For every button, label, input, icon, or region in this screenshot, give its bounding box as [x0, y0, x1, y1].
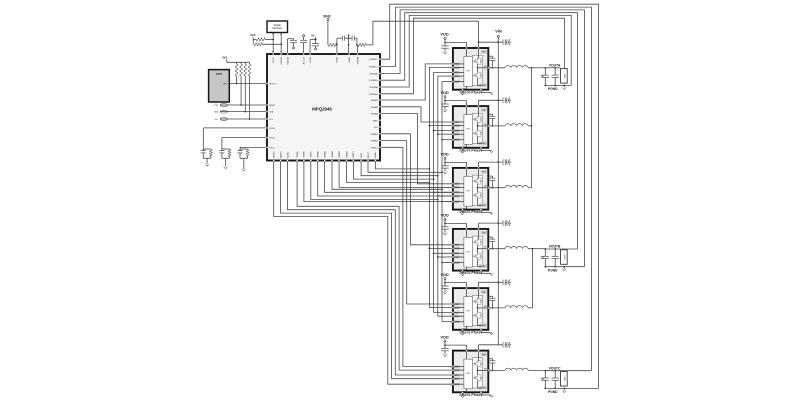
wire U1 bottom pin 5 to module bus: [304, 162, 453, 202]
svg-text:Intelli-Phase: Intelli-Phase: [459, 393, 482, 397]
svg-text:GND: GND: [563, 255, 565, 260]
Intelli-Phase power stage module 6: [452, 350, 489, 394]
NTC thermistor RC network at U1 pin y=127.9: [201, 128, 266, 166]
module 5 caption: [459, 330, 482, 334]
svg-text:TSENC: TSENC: [311, 151, 313, 158]
svg-text:PWMA3: PWMA3: [371, 113, 378, 116]
svg-text:3V3: 3V3: [250, 33, 255, 37]
svg-text:VOSNSB-: VOSNSB-: [369, 73, 378, 75]
VDD supply and decoupling for module 1: [440, 32, 466, 54]
svg-text:CTRL: CTRL: [213, 105, 218, 107]
svg-text:V5VIN: V5VIN: [310, 57, 312, 63]
pull-up resistors on digital interface lines (3V3): [250, 33, 282, 46]
module 2 ground connections: [460, 149, 493, 153]
svg-text:VOSNSA-: VOSNSA-: [369, 86, 378, 89]
svg-text:PWMA1: PWMA1: [371, 99, 378, 102]
svg-text:ISENA1: ISENA1: [317, 151, 320, 158]
U1 right pins: [369, 58, 381, 149]
PWM wire U1 to phase module 2: [381, 107, 453, 122]
svg-text:TSENA: TSENA: [296, 151, 299, 158]
svg-text:NTCB: NTCB: [269, 138, 275, 140]
svg-text:VDD18A: VDD18A: [286, 56, 289, 64]
VIN decoupling capacitors for module 4: [479, 220, 512, 228]
svg-text:VOUTA: VOUTA: [549, 63, 561, 67]
bus column 2 to module pins: [433, 72, 453, 312]
svg-text:ADDR0: ADDR0: [273, 151, 276, 157]
output inductor phase 2: [489, 124, 532, 126]
module 6 ground connections: [460, 393, 493, 397]
svg-text:VIN: VIN: [495, 29, 502, 34]
PWM wire U1 to phase module 3: [381, 114, 453, 184]
U1 top pins: [272, 53, 359, 65]
VDD supply and decoupling for module 2: [440, 90, 466, 112]
svg-text:PWMB2: PWMB2: [371, 141, 378, 143]
wire U1 bottom pin 12 to module bus: [353, 162, 434, 180]
5V bias supply and capacitor: [310, 34, 319, 53]
svg-text:ATEST: ATEST: [367, 151, 370, 158]
svg-text:VCC12: VCC12: [273, 57, 275, 63]
svg-text:VDD33A: VDD33A: [280, 56, 283, 64]
wire U1 bottom pin 7 to module bus: [318, 162, 453, 197]
svg-text:VOUTC: VOUTC: [549, 366, 561, 370]
output inductor phase 3: [489, 185, 532, 187]
VIN decoupling capacitors for module 6: [479, 342, 512, 350]
svg-text:VDD: VDD: [440, 90, 448, 95]
svg-text:ISENA3: ISENA3: [331, 151, 334, 158]
svg-text:Intelli-Phase: Intelli-Phase: [459, 90, 482, 94]
Intelli-Phase power stage module 5: [452, 287, 489, 331]
svg-text:PWMA2: PWMA2: [371, 106, 378, 109]
svg-text:PWMB1: PWMB1: [371, 134, 378, 136]
wire U1 bottom pin 9 to module bus: [332, 162, 443, 191]
Intelli-Phase power stage module 2: [452, 105, 489, 149]
module 4 bootstrap capacitor: [489, 237, 496, 249]
output stage VOUTA: [541, 63, 572, 91]
module 2 bootstrap capacitor: [489, 114, 496, 126]
svg-text:VOSNSC-: VOSNSC-: [369, 59, 378, 61]
svg-text:NTCA: NTCA: [269, 127, 275, 130]
bus column 1 to module pins: [429, 68, 453, 308]
Intelli-Phase power stage module 1: [452, 47, 489, 91]
svg-text:AVCC33: AVCC33: [302, 57, 305, 64]
connector SDA to U1: [214, 110, 266, 114]
wire U1 bottom pin 15 to module bus: [375, 162, 430, 170]
svg-text:VIN2A: VIN2A: [348, 56, 351, 62]
svg-text:NTCC: NTCC: [269, 147, 275, 149]
CPU block: [209, 70, 230, 102]
module 5 ground connections: [460, 331, 493, 335]
NTC thermistor RC network at U1 pin y=137.6: [219, 138, 266, 169]
svg-text:Intelli-Phase: Intelli-Phase: [459, 148, 482, 152]
svg-text:VREF: VREF: [361, 152, 363, 158]
VDD supply and decoupling for module 6: [440, 334, 466, 356]
wire U1 bottom pin 3 to module bus: [288, 162, 453, 376]
svg-text:SCL: SCL: [269, 119, 273, 121]
module 5 bootstrap capacitor: [489, 296, 496, 308]
svg-text:GND: GND: [563, 376, 565, 381]
VIN supply rail: [495, 29, 502, 345]
svg-text:CPU: CPU: [216, 72, 222, 76]
U1 left pins: [266, 83, 277, 150]
VIN decoupling capacitors for module 1: [478, 39, 512, 47]
module 3 caption: [459, 210, 482, 214]
phase bus rail B: [532, 248, 546, 308]
svg-text:5V: 5V: [311, 34, 315, 38]
output inductor phase 1: [489, 66, 532, 68]
svg-text:VDD: VDD: [440, 272, 448, 277]
svg-text:VOSNSB+: VOSNSB+: [369, 80, 379, 82]
module 1 bootstrap capacitor: [489, 56, 496, 68]
module 4 ground connections: [460, 272, 493, 276]
Intelli-Phase power stage module 3: [452, 167, 489, 211]
connector CTRL to U1: [213, 104, 266, 108]
VDD supply and decoupling for module 5: [440, 272, 466, 294]
wire U1 bottom pin 13 to module bus: [361, 162, 439, 177]
VDD supply and decoupling for module 4: [440, 213, 466, 235]
svg-text:VDD: VDD: [440, 152, 448, 157]
VIN decoupling capacitors for module 5: [479, 280, 512, 288]
svg-text:VIN1A: VIN1A: [335, 56, 338, 62]
decoupling capacitor on VDD18 pin: [288, 39, 297, 53]
module 1 caption: [459, 90, 482, 94]
output inductor phase 6: [489, 368, 546, 370]
svg-text:PGND: PGND: [548, 87, 558, 91]
output stage VOUTC: [541, 366, 599, 394]
svg-text:ADDR1: ADDR1: [279, 151, 282, 157]
module 2 caption: [459, 148, 482, 152]
module 4 caption: [459, 271, 482, 275]
sense wire VOSNSC- bus: [381, 4, 599, 388]
output inductor phase 4: [489, 246, 533, 248]
PWM wire U1 to phase module 6: [381, 147, 453, 366]
svg-text:VDD: VDD: [440, 32, 448, 37]
module 3 ground connections: [460, 211, 493, 215]
svg-text:PGND: PGND: [548, 390, 558, 394]
svg-text:DGND: DGND: [375, 152, 377, 158]
Intelli-Phase power stage module 4: [452, 228, 489, 272]
bus column 3 to module pins: [437, 76, 453, 316]
module 6 caption: [459, 393, 482, 397]
controller IC U1 MPQ2946: [267, 54, 380, 161]
bus column 4 to module pins: [441, 82, 453, 322]
svg-text:GPIO1:7: GPIO1:7: [269, 84, 276, 86]
svg-text:VDD: VDD: [440, 213, 448, 218]
svg-text:Intelli-Phase: Intelli-Phase: [459, 330, 482, 334]
NTC thermistor RC network at U1 pin y=147.4: [237, 147, 266, 171]
svg-text:PGND: PGND: [548, 268, 558, 272]
svg-text:ISENA2: ISENA2: [323, 151, 326, 158]
wire U1 bottom pin 4 to module bus: [297, 162, 453, 371]
svg-text:VSNSIN: VSNSIN: [357, 57, 359, 65]
svg-text:GND: GND: [563, 73, 565, 78]
svg-text:ISENC1: ISENC1: [353, 151, 355, 158]
svg-text:Intelli-Phase: Intelli-Phase: [459, 210, 482, 214]
sense wire VOSNSB- bus: [381, 10, 584, 267]
U1 bottom pins: [273, 151, 378, 162]
wire U1 bottom pin 14 to module bus: [368, 162, 443, 174]
PWM wire U1 to phase module 5: [381, 141, 453, 304]
svg-text:VOSNSA+: VOSNSA+: [369, 93, 379, 96]
sense wire VOSNSB+ bus: [381, 13, 578, 249]
sense wire VOSNSC+ bus: [381, 7, 591, 371]
wire U1 bottom pin 6 to module bus: [311, 162, 439, 201]
svg-text:VIN2: VIN2: [323, 15, 331, 19]
VIN decoupling capacitors for module 3: [479, 159, 512, 167]
module 3 bootstrap capacitor: [489, 176, 496, 188]
svg-text:BSEL: BSEL: [373, 120, 378, 122]
svg-text:Digital: Digital: [274, 23, 282, 27]
wire U1 bottom pin 8 to module bus: [325, 162, 453, 193]
svg-text:ISENB1: ISENB1: [339, 151, 341, 158]
decoupling capacitor on AVCC pin: [300, 35, 307, 53]
wire U1 bottom pin 2 to module bus: [281, 162, 453, 379]
svg-text:SDA: SDA: [214, 111, 219, 114]
svg-text:MPQ2946: MPQ2946: [312, 106, 332, 111]
svg-text:3V3: 3V3: [222, 56, 227, 60]
output stage VOUTB: [541, 245, 585, 273]
svg-text:TSENB: TSENB: [304, 151, 306, 158]
VDD supply and decoupling for module 3: [440, 152, 466, 174]
PWM wire U1 to phase module 1: [381, 64, 453, 100]
svg-text:ALERT: ALERT: [269, 104, 276, 107]
sense wire VOSNSA- bus: [381, 15, 571, 87]
svg-text:SCL: SCL: [215, 119, 219, 121]
wire U1 bottom pin 10 to module bus: [339, 162, 453, 188]
wire digital interface to U1 SDA/SCL: [272, 33, 282, 53]
wire CPU GPIO to U1 GPIO1:7: [229, 83, 266, 85]
phase bus rail A: [531, 67, 546, 188]
svg-text:GPIO: GPIO: [223, 84, 228, 86]
svg-text:ISENB2: ISENB2: [346, 151, 348, 158]
connector SCL to U1: [215, 118, 266, 122]
svg-text:Interface: Interface: [272, 26, 283, 30]
module 6 bootstrap capacitor: [489, 359, 496, 371]
PWM wire U1 to phase module 4: [381, 134, 453, 245]
module 1 ground connections: [460, 91, 493, 95]
svg-text:VOUTB: VOUTB: [549, 245, 561, 249]
svg-text:VDD: VDD: [440, 334, 448, 339]
wire VIN2 feed to phase rail: [373, 21, 479, 45]
wire U1 bottom pin 1 to module bus: [274, 162, 453, 385]
output inductor phase 5: [489, 306, 533, 308]
digital interface block: [267, 21, 288, 33]
sense wire VOSNSA+ bus: [381, 18, 564, 94]
svg-text:VOSNSC+: VOSNSC+: [369, 66, 379, 68]
svg-text:AGND: AGND: [286, 152, 289, 158]
VIN decoupling capacitors for module 2: [479, 98, 512, 106]
svg-text:PWMC1: PWMC1: [371, 147, 378, 149]
VIN2 input filter (resistors and capacitors): [323, 15, 373, 53]
wire U1 bottom pin 11 to module bus: [347, 162, 431, 184]
svg-text:Intelli-Phase: Intelli-Phase: [459, 271, 482, 275]
svg-text:CFG: CFG: [374, 127, 379, 129]
pull-up resistor bank 3V3: [222, 56, 251, 120]
